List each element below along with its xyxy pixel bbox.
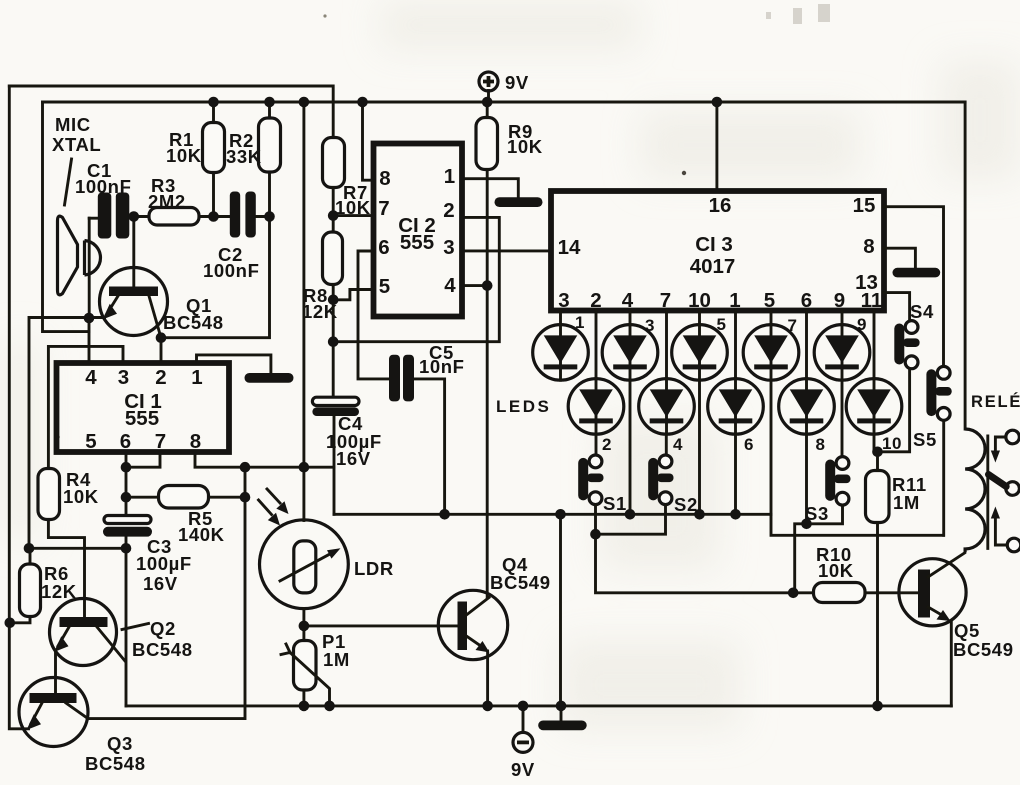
junction dots 555 column (328, 210, 493, 347)
svg-text:10nF: 10nF (419, 356, 465, 377)
faint scan marks top right (766, 4, 830, 24)
svg-text:BC549: BC549 (953, 639, 1014, 660)
label Q3 BC548 (85, 733, 146, 774)
wire S3 bottom to R10 left (795, 505, 843, 592)
capacitor C5 (389, 355, 414, 402)
svg-text:16: 16 (709, 194, 732, 217)
wire CI1 pin6 column to C3 (125, 452, 128, 516)
wire CI1 pin1 to bypass bar (197, 355, 271, 373)
wire LDR top lead (302, 467, 305, 520)
svg-text:2: 2 (443, 199, 454, 222)
LED 10 (846, 379, 902, 435)
wire LED9 to S3 (841, 381, 844, 456)
relay moving blade (989, 475, 1020, 496)
label R3 2M2 (148, 175, 186, 212)
switch S4 (894, 321, 919, 369)
LED 9 (814, 325, 870, 381)
label R8 12K (302, 285, 338, 322)
wire Q4 emitter to 0V rail (486, 651, 489, 706)
wire 0V bottom rail (126, 704, 951, 707)
svg-text:1: 1 (191, 366, 202, 389)
svg-text:14: 14 (558, 236, 581, 259)
wire LED cathodes to bus (630, 381, 771, 514)
wire P1 bottom lead (302, 690, 305, 706)
wire R9 column down to Q4 collector (486, 102, 489, 597)
svg-text:BC548: BC548 (163, 312, 224, 333)
wire S4 bottom to R11 node (874, 369, 910, 452)
svg-text:6: 6 (801, 289, 812, 312)
wire mic column down to emitter node (88, 218, 91, 318)
svg-text:9V: 9V (511, 759, 535, 780)
label R1 10K (166, 129, 202, 166)
svg-text:11: 11 (861, 289, 883, 312)
svg-text:10K: 10K (63, 486, 99, 507)
wire CI2 pin3 to CI3 pin14 (462, 249, 551, 252)
wire R1 leads (212, 102, 215, 217)
label C3 100uF 16V (136, 536, 192, 594)
svg-text:8: 8 (863, 235, 874, 258)
label R5 140K (178, 508, 225, 545)
junction dots cathode bus (439, 447, 882, 599)
svg-text:1M: 1M (323, 649, 350, 670)
capacitor C3 electrolytic (103, 516, 152, 537)
wire C4 bottom to cathode bus (333, 416, 336, 515)
svg-text:100nF: 100nF (203, 260, 259, 281)
svg-text:Q2: Q2 (150, 618, 176, 639)
capacitor C4 electrolytic (312, 397, 359, 416)
svg-text:3: 3 (558, 289, 569, 312)
label P1 1M (322, 631, 350, 670)
svg-text:7: 7 (788, 316, 798, 335)
svg-text:1: 1 (729, 289, 740, 312)
wire CI2 pin5 link (333, 290, 373, 300)
svg-text:S2: S2 (674, 494, 698, 515)
svg-text:S1: S1 (603, 493, 627, 514)
junction dots 0V rail (299, 701, 883, 712)
svg-text:MIC: MIC (55, 114, 91, 135)
svg-text:15: 15 (853, 194, 876, 217)
svg-text:3: 3 (645, 316, 655, 335)
svg-text:555: 555 (400, 231, 434, 254)
svg-text:4: 4 (444, 274, 456, 297)
label R11 1M (892, 474, 927, 513)
svg-text:XTAL: XTAL (52, 134, 101, 155)
LED 8 (779, 379, 835, 435)
label R7 10K (335, 182, 371, 218)
svg-text:5: 5 (379, 275, 390, 298)
svg-text:9: 9 (834, 289, 845, 312)
wire CI2 pin2 loop to R8 column (333, 217, 499, 341)
wire +9V rail (43, 101, 966, 104)
svg-text:10K: 10K (507, 136, 543, 157)
wire CI1 pin3 to R4 (48, 346, 123, 468)
wire top frame from left rail to R7 (9, 86, 333, 138)
svg-text:7: 7 (660, 289, 671, 312)
wire CI3 pin8 to bar (884, 248, 915, 268)
wire CI2 pin4 to R9 column (462, 284, 487, 287)
resistor R1 (203, 123, 225, 173)
labels LED numbers (575, 313, 902, 454)
battery +9V terminal (479, 72, 498, 102)
svg-text:4: 4 (85, 366, 97, 389)
svg-text:7: 7 (378, 197, 389, 220)
svg-text:10K: 10K (818, 560, 854, 581)
svg-text:2: 2 (602, 435, 612, 454)
capacitor C2 (230, 192, 256, 238)
svg-text:3: 3 (118, 366, 129, 389)
wire LED cathode bus (334, 514, 771, 706)
wire R6 top lead (29, 548, 32, 564)
transistor Q4 (438, 590, 507, 659)
LED 4 (639, 379, 695, 435)
LED 2 (568, 379, 624, 435)
wire LED4 to S2 (665, 435, 668, 455)
wire right rail down to relay coil (964, 102, 967, 429)
wire Q1 emitter rail and drop to R6 (29, 318, 105, 549)
ground bar at CI1 pin1 (245, 373, 294, 383)
label R9 10K (507, 121, 543, 157)
battery -9V terminal (513, 706, 533, 753)
LED 1 (533, 325, 589, 381)
resistor R2 (259, 118, 281, 172)
label MIC XTAL with callout (52, 114, 101, 205)
wire Q5 emitter to 0V rail (950, 621, 953, 706)
ground bar bottom (538, 706, 587, 730)
wire rail drop to pin8 node (302, 102, 305, 467)
svg-text:140K: 140K (178, 524, 225, 545)
resistor R9 (476, 118, 498, 170)
wire R8 column down to C4 (332, 285, 335, 398)
resistor R3 (149, 208, 199, 226)
svg-text:Q5: Q5 (954, 620, 980, 641)
wire LED anode drops top row (561, 311, 843, 324)
svg-text:10: 10 (882, 434, 902, 453)
svg-text:5: 5 (717, 315, 727, 334)
wire mic to C1 (89, 217, 98, 220)
transistor Q2 (50, 599, 126, 694)
svg-text:2: 2 (590, 289, 601, 312)
IC CI3 4017 (551, 191, 884, 312)
LED 7 (743, 325, 799, 381)
svg-text:5: 5 (764, 289, 775, 312)
wire CI1 pin7 to pin6 column (126, 452, 160, 467)
wire LED2 to S1 (595, 435, 598, 455)
microphone MIC XTAL (58, 216, 101, 295)
label Q2 BC548 with callout (122, 618, 193, 660)
svg-text:BC549: BC549 (490, 572, 551, 593)
svg-text:8: 8 (379, 167, 390, 190)
resistor R6 (20, 564, 41, 617)
relay coil (965, 429, 985, 553)
svg-text:BC548: BC548 (132, 639, 193, 660)
transistor Q5 (899, 553, 966, 626)
svg-text:LDR: LDR (354, 558, 394, 579)
wire R5 leads (126, 496, 245, 499)
wire C2 right lead (256, 215, 270, 218)
resistor R11 (866, 471, 890, 523)
wire CI3 pin16 to rail (715, 102, 718, 191)
LED 3 (602, 325, 658, 381)
capacitor C1 (98, 193, 130, 239)
stray speck (682, 171, 686, 175)
wire R11 column to 0V rail (876, 452, 879, 706)
svg-text:LEDS: LEDS (496, 397, 551, 416)
wire Q1 collector to CI1 pin2 (160, 338, 163, 363)
wire C5 right to bus (414, 379, 445, 514)
svg-text:6: 6 (378, 236, 389, 259)
svg-text:16V: 16V (336, 448, 371, 469)
resistor R7 (323, 138, 345, 188)
resistor R10 (814, 583, 866, 603)
wire emitter node link to C3 column (29, 547, 126, 550)
svg-text:5: 5 (85, 430, 96, 453)
switch S2 (648, 455, 673, 505)
wire S5 bottom to switch common rail (942, 421, 945, 536)
svg-text:6: 6 (120, 430, 131, 453)
wire CI1 pin8 node rail (195, 452, 334, 467)
svg-text:BC548: BC548 (85, 753, 146, 774)
IC CI2 555 (374, 144, 463, 317)
svg-text:7: 7 (155, 430, 166, 453)
resistor R8 (323, 232, 343, 285)
resistor R4 (38, 469, 60, 520)
label C5 10nF (419, 342, 465, 377)
resistor R5 (159, 486, 209, 509)
junction dots input stage (84, 211, 275, 343)
junction dots on +9V rail (208, 97, 722, 108)
svg-text:10: 10 (688, 289, 711, 312)
wire Q4 base from LDR node (304, 624, 458, 627)
svg-text:3: 3 (443, 236, 454, 259)
svg-text:555: 555 (125, 407, 159, 430)
wire R3 right to R1 bottom junction (199, 215, 230, 218)
wire CI3 pin15 to S5 (884, 207, 944, 366)
transistor Q3 (19, 678, 88, 747)
svg-text:8: 8 (190, 430, 201, 453)
wire R4 bottom to Q2 base (48, 520, 84, 618)
wire S2 bottom link (596, 505, 666, 534)
svg-text:12K: 12K (41, 581, 77, 602)
wire node column R5 junction down to Q3 collector rail (88, 467, 245, 718)
wire LED8 to S3 common (805, 435, 808, 524)
svg-text:S4: S4 (910, 301, 934, 322)
label C2 100nF (203, 244, 259, 281)
relay contact bottom (991, 507, 1020, 552)
svg-text:6: 6 (744, 435, 754, 454)
svg-text:4: 4 (673, 435, 683, 454)
svg-text:1: 1 (444, 165, 455, 188)
svg-text:RELÉ: RELÉ (971, 392, 1020, 411)
relay armature line (986, 436, 989, 549)
wire R10 right to Q5 base (865, 591, 918, 594)
svg-text:2: 2 (155, 366, 166, 389)
LDR (259, 489, 349, 609)
svg-text:4: 4 (622, 289, 634, 312)
ground bar at CI3 pin8 (893, 268, 941, 278)
svg-text:1: 1 (575, 313, 585, 332)
wire bus step down to switch common rail (771, 514, 944, 535)
wire C3 bottom column to 0V rail (125, 537, 128, 706)
label R4 10K (63, 469, 99, 507)
svg-text:100µF: 100µF (136, 553, 192, 574)
svg-text:10K: 10K (166, 145, 202, 166)
wire LED anode drops bottom row (596, 311, 874, 378)
wire R2 leads and column to Q1 collector (161, 102, 270, 338)
potentiometer P1 (281, 641, 330, 706)
svg-text:9V: 9V (505, 72, 529, 93)
wire emitter node to CI1 pin4 (88, 318, 91, 363)
svg-text:S5: S5 (913, 429, 937, 450)
IC CI1 555 (57, 363, 230, 453)
label R6 12K (41, 563, 77, 602)
switch S1 (578, 455, 603, 505)
wire CI2 pin8 to rail (363, 102, 374, 180)
wire left border rail (9, 86, 28, 729)
svg-text:8: 8 (816, 435, 826, 454)
wire LED10 to R11 node (874, 435, 878, 452)
wire C1 right to R3 junction and Q1 base (129, 217, 149, 288)
label Q5 BC549 (953, 620, 1014, 660)
wire mic box left drop to pin4 route (43, 102, 89, 332)
junction dots CI1 bottom nets (5, 462, 310, 631)
svg-text:CI 3: CI 3 (695, 233, 733, 256)
wire R7 bottom to pin7 node (333, 188, 373, 233)
svg-text:Q3: Q3 (107, 733, 133, 754)
wire S1 bottom to R10 rail (596, 505, 814, 593)
switch S3 (825, 457, 850, 506)
wire CI2 pin1 to bypass bar (462, 179, 518, 198)
svg-text:4017: 4017 (690, 255, 736, 278)
wire R6 bottom to border (10, 617, 30, 623)
wire LDR bottom to P1 junction (302, 609, 305, 642)
LED 5 (672, 325, 728, 381)
wire CI3 pin13 to S4 (884, 293, 910, 321)
relay contact top (991, 430, 1020, 462)
ground bar at CI2 pin1 (495, 197, 543, 207)
wire CI2 pin6 to C5 left (358, 251, 389, 379)
svg-text:2M2: 2M2 (148, 191, 186, 212)
switch S5 (926, 366, 951, 420)
label Q4 BC549 (490, 554, 551, 593)
label C1 100nF (75, 160, 131, 197)
LED 6 (708, 379, 764, 435)
svg-text:100nF: 100nF (75, 176, 131, 197)
svg-text:1M: 1M (893, 492, 920, 513)
label C4 100uF 16V (326, 413, 382, 469)
label Q1 BC548 (163, 295, 224, 333)
transistor Q1 (100, 268, 168, 338)
label R2 33K (226, 130, 262, 167)
svg-text:33K: 33K (226, 146, 262, 167)
label R10 10K (816, 544, 854, 581)
svg-text:16V: 16V (143, 573, 178, 594)
svg-text:9: 9 (857, 315, 867, 334)
